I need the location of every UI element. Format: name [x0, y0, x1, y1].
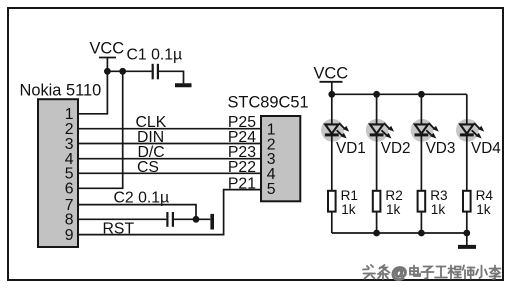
power VCC (right) — [314, 64, 349, 94]
svg-text:5: 5 — [267, 181, 276, 198]
wire VCC rail to LED VD3 anode — [420, 94, 422, 124]
svg-text:VD1: VD1 — [336, 140, 366, 157]
junction dot VCC rail / VD3 — [418, 91, 425, 98]
wire resistor R4 to ground rail — [466, 212, 468, 233]
terminal bar (RST net) — [210, 214, 214, 230]
svg-text:P22: P22 — [228, 159, 256, 176]
capacitor C2 — [167, 212, 173, 227]
svg-text:1k: 1k — [341, 202, 356, 217]
LED VD2 — [366, 119, 394, 142]
wire VCC node to capacitor C1 — [107, 70, 151, 72]
wire VCC to Nokia pin 1 — [79, 71, 108, 114]
wire resistor R3 to ground rail — [420, 212, 422, 233]
junction dot ground rail / R2 — [373, 230, 380, 237]
resistor R3 — [418, 191, 426, 212]
wire DIN: Nokia pin 3 to STC pin 2 — [79, 143, 262, 145]
junction dot RST node — [193, 216, 200, 223]
junction dot VCC/pin6 — [119, 68, 126, 75]
resistor R2 — [373, 191, 381, 212]
resistor R4 — [463, 191, 471, 212]
svg-text:CS: CS — [137, 159, 159, 176]
svg-text:VD2: VD2 — [381, 140, 411, 157]
svg-text:Nokia 5110: Nokia 5110 — [20, 81, 102, 99]
wire Nokia pin 8 to capacitor C2 — [79, 218, 167, 220]
wire capacitor C2 to terminal bar — [174, 218, 210, 220]
wire ground stub — [466, 233, 468, 245]
svg-text:1k: 1k — [386, 202, 401, 217]
capacitor C1 — [153, 64, 158, 80]
wire capacitor C1 to ground — [159, 71, 184, 83]
svg-text:1k: 1k — [431, 202, 446, 217]
wire Nokia pin 9 to STC pin 5 (P21) — [79, 190, 262, 235]
wire resistor R2 to ground rail — [376, 212, 378, 233]
svg-text:VD4: VD4 — [471, 140, 501, 157]
wire VCC to Nokia pin 6 — [79, 71, 123, 188]
junction dot VCC rail / VD2 — [373, 91, 380, 98]
wire VCC top rail — [332, 93, 467, 95]
wire VCC rail to LED VD2 anode — [376, 94, 378, 124]
wire VCC rail to LED VD1 anode — [331, 94, 333, 124]
LED VD3 — [411, 119, 439, 142]
wire Nokia pin 7 to RST node — [79, 205, 197, 220]
LED VD1 — [321, 119, 349, 142]
resistor R1 — [328, 191, 336, 212]
junction dot ground rail / ground stub — [463, 230, 470, 237]
svg-text:STC89C51: STC89C51 — [228, 93, 309, 111]
wire VCC rail to LED VD4 anode — [466, 94, 468, 124]
wire CS: Nokia pin 5 to STC pin 4 — [79, 172, 262, 174]
wire LED VD2 cathode to resistor R2 — [376, 135, 378, 191]
ground (near C1) — [175, 83, 192, 87]
connector Nokia 5110 — [20, 81, 102, 247]
svg-text:1k: 1k — [476, 202, 491, 217]
wire LED VD4 cathode to resistor R4 — [466, 135, 468, 191]
wire resistor R1 to ground rail — [331, 212, 333, 233]
ground (right) — [458, 245, 476, 249]
svg-text:C2 0.1µ: C2 0.1µ — [114, 189, 170, 206]
wire CLK: Nokia pin 2 to STC pin 1 — [79, 128, 262, 130]
LED VD4 — [456, 119, 484, 142]
junction dot VCC/pin1 — [104, 68, 111, 75]
svg-text:@: @ — [392, 265, 407, 282]
svg-text:C1 0.1µ: C1 0.1µ — [127, 47, 183, 64]
svg-text:VCC: VCC — [90, 40, 125, 58]
svg-text:9: 9 — [65, 227, 74, 244]
watermark 头条 @电子工程师小李 — [363, 265, 501, 282]
wire ground rail — [332, 232, 467, 234]
junction dot VCC rail / VD1 — [328, 91, 335, 98]
svg-text:VCC: VCC — [314, 64, 349, 82]
wire LED VD3 cathode to resistor R3 — [420, 135, 422, 191]
svg-text:6: 6 — [65, 181, 74, 198]
svg-text:VD3: VD3 — [426, 140, 456, 157]
power VCC (left) — [90, 40, 125, 72]
IC STC89C51 — [228, 93, 309, 201]
wire LED VD1 cathode to resistor R1 — [331, 135, 333, 191]
junction dot ground rail / R3 — [418, 230, 425, 237]
wire D/C: Nokia pin 4 to STC pin 3 — [79, 158, 262, 160]
